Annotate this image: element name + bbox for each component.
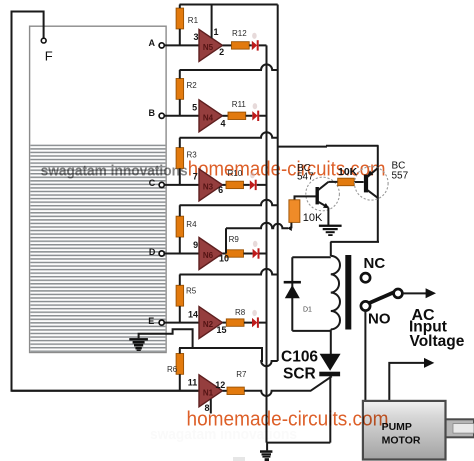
svg-text:15: 15 (216, 325, 226, 335)
svg-text:R3: R3 (187, 151, 198, 160)
svg-text:swagatam innovations: swagatam innovations (41, 162, 188, 179)
svg-text:N4: N4 (203, 113, 214, 122)
svg-text:N5: N5 (203, 43, 214, 52)
svg-text:557: 557 (392, 171, 409, 182)
svg-text:NO: NO (368, 311, 391, 328)
svg-text:C: C (149, 178, 156, 188)
svg-text:R1: R1 (188, 16, 199, 25)
svg-text:R9: R9 (229, 235, 240, 244)
svg-text:A: A (148, 38, 155, 48)
svg-text:7: 7 (193, 172, 198, 182)
svg-text:2: 2 (219, 47, 224, 57)
svg-text:D: D (149, 247, 156, 257)
svg-text:R12: R12 (232, 29, 247, 38)
svg-text:11: 11 (188, 378, 198, 388)
svg-text:9: 9 (193, 240, 198, 250)
svg-text:6: 6 (218, 185, 223, 195)
svg-text:SCR: SCR (283, 366, 316, 383)
svg-text:R10: R10 (228, 169, 243, 178)
svg-text:D1: D1 (303, 307, 312, 314)
svg-text:R5: R5 (186, 287, 197, 296)
svg-text:N3: N3 (203, 182, 214, 191)
svg-text:1: 1 (213, 27, 218, 37)
svg-text:R6: R6 (167, 365, 178, 374)
svg-text:F: F (45, 49, 53, 64)
svg-text:E: E (148, 316, 154, 326)
svg-text:B: B (148, 108, 155, 118)
svg-text:R8: R8 (235, 308, 246, 317)
svg-text:homemade-circuits.com: homemade-circuits.com (187, 408, 389, 431)
svg-text:R7: R7 (236, 370, 247, 379)
svg-text:4: 4 (220, 119, 225, 129)
svg-text:R4: R4 (186, 220, 197, 229)
svg-text:Voltage: Voltage (410, 333, 465, 350)
svg-text:12: 12 (215, 380, 225, 390)
svg-text:10K: 10K (338, 166, 358, 178)
svg-text:NC: NC (364, 255, 386, 272)
svg-text:R2: R2 (187, 81, 198, 90)
svg-text:C106: C106 (281, 349, 318, 366)
svg-text:R11: R11 (232, 100, 247, 109)
svg-text:N1: N1 (203, 388, 214, 397)
svg-text:547: 547 (297, 172, 314, 183)
svg-text:MOTOR: MOTOR (382, 434, 421, 446)
svg-text:5: 5 (192, 103, 197, 113)
svg-text:N6: N6 (203, 251, 214, 260)
svg-text:N2: N2 (203, 320, 214, 329)
svg-text:10K: 10K (303, 212, 323, 224)
svg-text:14: 14 (188, 309, 198, 319)
svg-text:10: 10 (219, 254, 229, 264)
svg-text:3: 3 (193, 32, 198, 42)
